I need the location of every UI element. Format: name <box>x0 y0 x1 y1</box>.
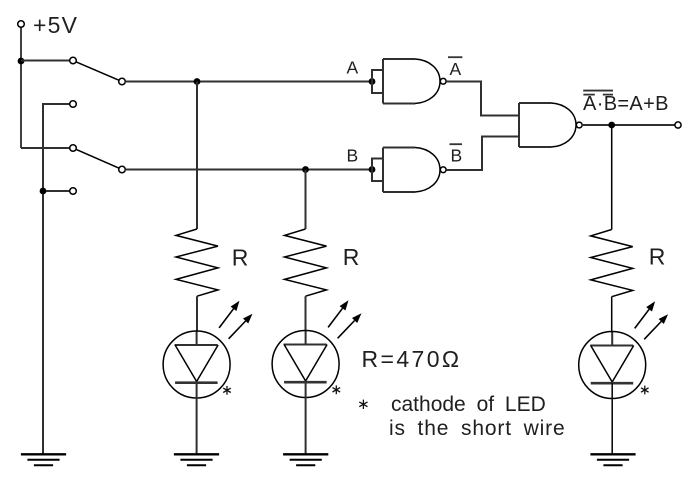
NAND gate U2 <box>383 148 446 193</box>
svg-text:is the short wire: is the short wire <box>389 417 566 440</box>
LED D2 <box>272 331 339 454</box>
wire: S1 lower contact to ground rail <box>43 104 70 454</box>
junction dot on +5V rail <box>18 58 25 65</box>
svg-text:R=470Ω: R=470Ω <box>362 346 462 372</box>
svg-text:+5V: +5V <box>33 12 78 38</box>
svg-text:R: R <box>232 245 249 271</box>
switch S1 common pole <box>119 78 126 85</box>
ground (LED D1) <box>174 454 219 465</box>
svg-text:A: A <box>450 59 462 79</box>
cathode asterisk of LED D3 <box>641 386 649 395</box>
junction dot node B to R2 <box>302 166 309 173</box>
junction dot node A to R1 <box>194 78 201 85</box>
ground (LED D3) <box>590 454 635 465</box>
ground (supply rail) <box>21 454 66 465</box>
light arrows of LED D3 <box>635 301 668 339</box>
cathode asterisk of LED D2 <box>333 385 341 394</box>
switch S2 common pole <box>119 166 126 173</box>
LED D3 <box>579 332 646 454</box>
svg-text:cathode of LED: cathode of LED <box>391 393 546 416</box>
wire: R3 to LED D3 <box>611 297 613 332</box>
resistor R3 <box>591 230 633 297</box>
light arrows of LED D2 <box>328 300 361 338</box>
resistor R2 <box>285 229 327 296</box>
output terminal <box>675 122 681 128</box>
switch S2 lower contact <box>70 188 77 195</box>
svg-text:R: R <box>343 244 360 270</box>
wire: +5V rail vertical <box>20 27 22 148</box>
switch S1 arm <box>76 62 119 81</box>
wire: U1 input stubs <box>372 70 383 93</box>
NAND gate U1 <box>383 59 446 104</box>
footnote asterisk <box>359 400 367 409</box>
resistor R1 <box>176 229 218 296</box>
svg-text:A·B=A+B: A·B=A+B <box>583 93 669 115</box>
output label A-bar dot B-bar = A+B <box>583 91 669 115</box>
wire: node B from S2 to gate U2 <box>125 169 372 171</box>
svg-text:B: B <box>451 146 463 166</box>
LED D1 <box>163 331 230 454</box>
svg-text:B: B <box>347 146 359 166</box>
wire: output node to terminal <box>582 124 675 126</box>
wire: R1 to LED D1 <box>196 296 198 331</box>
junction dot at U1 tied inputs <box>369 78 376 85</box>
wire: ground rail to S2 lower contact <box>46 190 70 192</box>
cathode asterisk of LED D1 <box>223 386 231 395</box>
wire: A-bar from U1 to U3 <box>446 82 518 116</box>
node label B-bar <box>450 144 463 165</box>
wire: R2 to LED D2 <box>305 296 307 330</box>
NAND gate U3 <box>519 103 582 147</box>
switch S2 upper contact <box>70 145 77 152</box>
junction dot on ground rail <box>40 188 47 195</box>
svg-text:R: R <box>649 244 666 270</box>
light arrows of LED D1 <box>219 301 252 339</box>
wire: node A from S1 to gate U1 <box>125 81 372 83</box>
wire: U2 input stubs <box>372 159 383 182</box>
wire: node A down to resistor R1 <box>196 82 198 230</box>
junction dot at U2 tied inputs <box>369 166 376 173</box>
switch S1 upper contact <box>70 57 77 64</box>
ground (LED D2) <box>283 454 328 465</box>
switch S2 arm <box>76 149 119 168</box>
wire: node B down to resistor R2 <box>305 170 307 230</box>
svg-text:A: A <box>347 58 359 78</box>
wire: rail to switch S1 upper contact <box>21 60 70 62</box>
wire: rail to switch S2 upper contact <box>21 147 70 149</box>
switch S1 lower contact <box>70 101 77 108</box>
node label A-bar <box>448 57 462 79</box>
wire: B-bar from U2 to U3 <box>446 137 518 171</box>
junction dot output to R3 <box>608 122 615 129</box>
+5V supply terminal <box>18 21 25 28</box>
wire: output down to resistor R3 <box>611 125 613 230</box>
